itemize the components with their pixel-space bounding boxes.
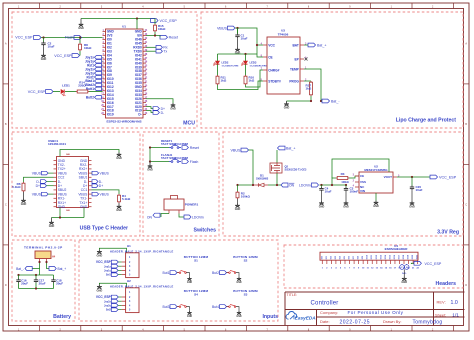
svg-text:2022-07-25: 2022-07-25 <box>340 319 371 325</box>
svg-text:S4: S4 <box>194 293 198 297</box>
svg-text:GND: GND <box>21 203 27 206</box>
svg-text:Bat_+: Bat_+ <box>317 43 327 47</box>
svg-text:STDBY#: STDBY# <box>268 79 281 83</box>
svg-text:Bat_-: Bat_- <box>331 99 340 103</box>
svg-text:LDOVin: LDOVin <box>299 183 311 187</box>
svg-text:MCU: MCU <box>183 121 195 127</box>
svg-text:10kΩ: 10kΩ <box>84 46 92 50</box>
svg-text:220Ω: 220Ω <box>78 84 86 88</box>
svg-text:But4: But4 <box>212 305 219 309</box>
svg-text:VBUS: VBUS <box>32 171 42 175</box>
svg-text:GND: GND <box>135 85 143 89</box>
svg-text:GND: GND <box>80 159 88 163</box>
svg-text:LED2: LED2 <box>222 61 229 65</box>
svg-text:IO37: IO37 <box>135 73 142 77</box>
svg-text:Controller: Controller <box>311 301 339 307</box>
svg-text:IO2: IO2 <box>330 256 332 259</box>
svg-text:VCC_ESP: VCC_ESP <box>96 260 112 264</box>
svg-text:Tx: Tx <box>163 50 167 54</box>
svg-text:GND: GND <box>58 159 66 163</box>
svg-text:GND: GND <box>187 282 192 284</box>
svg-text:IO8: IO8 <box>107 69 112 73</box>
svg-text:100kΩ: 100kΩ <box>241 194 251 198</box>
svg-text:Flash: Flash <box>65 36 74 40</box>
svg-text:IO40: IO40 <box>135 61 142 65</box>
svg-text:3V3: 3V3 <box>107 34 113 38</box>
svg-text:RX2+: RX2+ <box>79 167 87 171</box>
svg-text:Drawn By:: Drawn By: <box>383 319 401 324</box>
svg-text:IO4: IO4 <box>107 53 112 57</box>
svg-text:VOUT: VOUT <box>384 175 393 179</box>
svg-text:Bat_+: Bat_+ <box>286 146 296 150</box>
svg-text:Blad2: Blad2 <box>85 83 94 87</box>
svg-text:IO38: IO38 <box>135 69 142 73</box>
svg-text:1kΩ: 1kΩ <box>306 87 312 91</box>
svg-text:BAT: BAT <box>292 43 298 47</box>
svg-text:IO35: IO35 <box>135 81 142 85</box>
svg-text:Joy1y: Joy1y <box>85 59 94 63</box>
svg-text:GND: GND <box>401 280 407 284</box>
svg-text:IO6: IO6 <box>349 256 351 259</box>
svg-text:D-: D- <box>99 180 103 184</box>
svg-text:3.3V Reg: 3.3V Reg <box>437 230 459 236</box>
svg-text:1/1: 1/1 <box>452 312 459 318</box>
svg-text:GND: GND <box>78 27 84 30</box>
svg-text:D-: D- <box>84 180 87 184</box>
svg-text:IO11: IO11 <box>107 81 114 85</box>
svg-text:10uF: 10uF <box>416 188 423 192</box>
svg-text:CC1: CC1 <box>81 188 88 192</box>
svg-text:R3: R3 <box>341 172 345 176</box>
svg-text:TX1-: TX1- <box>80 197 87 201</box>
svg-text:TXD0: TXD0 <box>134 49 142 53</box>
svg-text:VBUS: VBUS <box>58 192 68 196</box>
svg-text:VBUS: VBUS <box>58 171 68 175</box>
svg-text:Lipo Charge and Protect: Lipo Charge and Protect <box>396 118 457 124</box>
svg-text:IO3: IO3 <box>107 49 112 53</box>
svg-text:IO8: IO8 <box>358 256 360 259</box>
svg-text:IO0: IO0 <box>107 38 112 42</box>
svg-text:IO17: IO17 <box>399 255 401 259</box>
svg-text:Joy2x: Joy2x <box>85 67 94 71</box>
svg-text:D1: D1 <box>260 173 264 177</box>
svg-text:IO7: IO7 <box>107 65 112 69</box>
svg-text:VBUS: VBUS <box>217 27 228 31</box>
svg-text:VBUS: VBUS <box>100 171 110 175</box>
svg-text:Rst1: Rst1 <box>87 63 94 67</box>
svg-text:VCC_ESP: VCC_ESP <box>96 295 112 299</box>
svg-text:REV:: REV: <box>437 299 446 304</box>
svg-text:IO41: IO41 <box>135 57 142 61</box>
svg-text:TERMINAL PH2.0-2P: TERMINAL PH2.0-2P <box>24 246 63 250</box>
svg-text:GND: GND <box>135 30 143 34</box>
svg-text:GND: GND <box>373 205 379 208</box>
svg-text:VSS: VSS <box>360 180 366 184</box>
svg-text:GND: GND <box>319 205 325 208</box>
svg-text:IO46: IO46 <box>135 38 142 42</box>
svg-text:IO16: IO16 <box>107 101 114 105</box>
svg-text:CC2: CC2 <box>58 176 65 180</box>
svg-text:VCC_ESP: VCC_ESP <box>439 175 457 179</box>
svg-text:GND: GND <box>96 253 102 257</box>
svg-text:Joy2x: Joy2x <box>104 300 111 303</box>
svg-text:IO7: IO7 <box>353 256 355 259</box>
svg-text:Sel2: Sel2 <box>106 309 112 312</box>
svg-text:IO2: IO2 <box>107 46 112 50</box>
svg-text:10uF: 10uF <box>241 36 248 40</box>
svg-text:20uF: 20uF <box>56 281 63 285</box>
svg-text:IO10: IO10 <box>107 77 114 81</box>
svg-text:RX1-: RX1- <box>58 197 66 201</box>
svg-text:IO21: IO21 <box>135 101 142 105</box>
svg-text:Joy2y: Joy2y <box>85 71 94 75</box>
svg-text:Bat_-: Bat_- <box>16 267 24 271</box>
svg-text:GND: GND <box>284 106 290 109</box>
svg-text:EasyEDA: EasyEDA <box>295 316 316 321</box>
svg-text:GND: GND <box>409 205 415 208</box>
svg-text:IO19: IO19 <box>408 255 410 259</box>
svg-text:1kΩ: 1kΩ <box>249 79 255 83</box>
svg-text:RX2-: RX2- <box>80 163 88 167</box>
svg-text:IO1: IO1 <box>107 42 112 46</box>
svg-text:U1: U1 <box>122 25 126 29</box>
svg-text:USB Type C Header: USB Type C Header <box>80 226 128 232</box>
svg-text:100nF: 100nF <box>350 190 359 194</box>
svg-text:D-: D- <box>138 113 141 117</box>
svg-text:IO15: IO15 <box>389 255 391 259</box>
svg-text:IO21: IO21 <box>417 255 419 259</box>
svg-text:But2: But2 <box>212 271 219 275</box>
svg-text:VCC: VCC <box>268 43 275 47</box>
svg-text:LDOVin: LDOVin <box>192 215 204 219</box>
svg-text:IO12: IO12 <box>107 85 114 89</box>
svg-text:10uF: 10uF <box>48 44 55 48</box>
svg-text:GND: GND <box>343 205 349 208</box>
svg-text:D-: D- <box>58 180 61 184</box>
svg-text:IO0: IO0 <box>321 256 323 259</box>
svg-text:H1: H1 <box>127 244 131 248</box>
svg-text:Butt2: Butt2 <box>86 96 94 100</box>
svg-text:Tommybdog: Tommybdog <box>413 319 443 325</box>
svg-text:IO9: IO9 <box>362 256 364 259</box>
svg-text:IO14: IO14 <box>107 93 114 97</box>
svg-text:12S460-0101: 12S460-0101 <box>48 142 66 146</box>
svg-text:IO26: IO26 <box>135 97 142 101</box>
svg-text:Blad1: Blad1 <box>85 79 94 83</box>
svg-text:H2: H2 <box>127 279 131 283</box>
svg-text:D+: D+ <box>99 184 103 188</box>
svg-text:IO39: IO39 <box>135 65 142 69</box>
svg-text:IO13: IO13 <box>380 255 382 259</box>
svg-text:GND: GND <box>58 205 66 209</box>
svg-text:Rx: Rx <box>163 46 167 50</box>
svg-text:IO36: IO36 <box>135 77 142 81</box>
svg-text:IO18: IO18 <box>107 109 114 113</box>
svg-text:VCC_ESP: VCC_ESP <box>28 90 46 94</box>
svg-text:IO9: IO9 <box>107 73 112 77</box>
svg-text:D+: D+ <box>58 184 62 188</box>
svg-text:ESP32-S2-WROOM/-INS: ESP32-S2-WROOM/-INS <box>106 120 141 124</box>
svg-text:VBUS: VBUS <box>100 192 110 196</box>
svg-text:Date:: Date: <box>320 319 330 324</box>
svg-text:HEADER_MALE_2.54_1X5P_RIGHTANG: HEADER_MALE_2.54_1X5P_RIGHTANGLE <box>110 249 174 253</box>
svg-text:VCC_ESP: VCC_ESP <box>160 19 178 23</box>
svg-text:IO20: IO20 <box>412 255 414 259</box>
svg-text:U3: U3 <box>281 29 285 33</box>
svg-text:EN: EN <box>137 34 142 38</box>
svg-text:VBUS: VBUS <box>78 171 88 175</box>
svg-text:GND: GND <box>107 30 115 34</box>
svg-text:SBU1: SBU1 <box>79 176 88 180</box>
svg-text:IO10: IO10 <box>367 255 369 259</box>
svg-text:TP4056: TP4056 <box>278 33 289 37</box>
svg-text:5.1kΩ: 5.1kΩ <box>122 197 131 201</box>
svg-text:VBUS: VBUS <box>78 192 88 196</box>
svg-text:Bat_+: Bat_+ <box>58 267 67 271</box>
svg-text:GND: GND <box>187 316 192 318</box>
svg-text:IO42: IO42 <box>135 53 142 57</box>
svg-text:S3: S3 <box>244 293 248 297</box>
svg-text:But1: But1 <box>163 271 170 275</box>
svg-text:Flash: Flash <box>190 160 199 164</box>
svg-text:RstC: RstC <box>87 75 95 79</box>
svg-text:Sheet:: Sheet: <box>435 312 446 317</box>
svg-text:10uF: 10uF <box>325 190 332 194</box>
svg-text:Joy1x: Joy1x <box>85 56 94 60</box>
svg-text:For Personal Use Only: For Personal Use Only <box>348 310 404 315</box>
svg-text:Q2: Q2 <box>285 164 289 168</box>
svg-text:VCC_ESP: VCC_ESP <box>425 262 442 266</box>
svg-text:IO12: IO12 <box>376 255 378 259</box>
svg-text:D+: D+ <box>161 107 165 111</box>
svg-text:IO11: IO11 <box>371 255 373 259</box>
svg-text:IO16: IO16 <box>394 255 396 259</box>
svg-text:IO6: IO6 <box>107 61 112 65</box>
svg-text:RXD0: RXD0 <box>133 46 142 50</box>
svg-text:ESPANHEADER: ESPANHEADER <box>385 247 409 251</box>
svg-text:LED3: LED3 <box>250 61 257 65</box>
svg-text:IO20: IO20 <box>135 105 142 109</box>
svg-text:LED1: LED1 <box>62 83 70 87</box>
svg-text:TEMP: TEMP <box>290 67 300 71</box>
svg-text:CE: CE <box>268 55 272 59</box>
svg-text:10kΩ: 10kΩ <box>158 27 166 31</box>
svg-text:SBU2: SBU2 <box>58 188 67 192</box>
svg-text:IO19: IO19 <box>135 109 142 113</box>
svg-text:HEADER_MALE_2.54_1X5P_RIGHTANG: HEADER_MALE_2.54_1X5P_RIGHTANGLE <box>110 284 174 288</box>
svg-text:D-: D- <box>36 180 40 184</box>
svg-text:IO5: IO5 <box>107 57 112 61</box>
svg-text:VBUS: VBUS <box>32 192 42 196</box>
svg-text:S1: S1 <box>194 259 198 263</box>
svg-text:1kΩ: 1kΩ <box>221 79 227 83</box>
svg-text:1N5819WS: 1N5819WS <box>256 178 269 181</box>
svg-text:Joy2y: Joy2y <box>104 305 111 308</box>
svg-text:TX1+: TX1+ <box>79 201 87 205</box>
svg-text:IO33: IO33 <box>135 93 142 97</box>
svg-text:1.0: 1.0 <box>451 300 458 306</box>
svg-text:Battery: Battery <box>53 314 71 320</box>
svg-text:Reset: Reset <box>169 36 178 40</box>
svg-text:ON: ON <box>289 183 295 187</box>
svg-text:TITLE:: TITLE: <box>287 293 298 297</box>
svg-text:VIN: VIN <box>360 189 365 193</box>
svg-text:PROG: PROG <box>289 79 299 83</box>
svg-text:GND: GND <box>236 282 241 284</box>
svg-text:RX1+: RX1+ <box>58 201 66 205</box>
svg-text:CHRG#: CHRG# <box>268 68 279 72</box>
svg-text:IO17: IO17 <box>107 105 114 109</box>
svg-text:POWER1: POWER1 <box>185 203 199 207</box>
svg-text:GND: GND <box>170 107 176 110</box>
svg-text:GND: GND <box>116 209 122 212</box>
svg-text:20uF: 20uF <box>39 281 46 285</box>
svg-text:SI2301CDS-T1-GE3: SI2301CDS-T1-GE3 <box>285 168 307 171</box>
svg-text:GND: GND <box>147 168 153 171</box>
svg-text:ME6217C33M5G: ME6217C33M5G <box>364 168 388 172</box>
svg-text:D+: D+ <box>36 184 40 188</box>
svg-text:TX2+: TX2+ <box>58 167 66 171</box>
svg-text:Headers: Headers <box>436 281 457 287</box>
svg-text:IO5: IO5 <box>344 256 346 259</box>
svg-text:IO34: IO34 <box>135 89 142 93</box>
svg-text:GND: GND <box>41 58 47 61</box>
svg-text:ON: ON <box>147 216 153 220</box>
svg-text:IO19: IO19 <box>107 113 114 117</box>
svg-text:20uF: 20uF <box>21 281 28 285</box>
svg-text:IO15: IO15 <box>107 97 114 101</box>
svg-text:IO3: IO3 <box>335 256 337 259</box>
svg-text:Company:: Company: <box>320 310 338 315</box>
svg-text:Joy1x: Joy1x <box>104 265 111 268</box>
svg-text:IO18: IO18 <box>403 255 405 259</box>
svg-text:Reset: Reset <box>190 146 199 150</box>
svg-text:Inputs: Inputs <box>262 314 278 320</box>
svg-text:D+: D+ <box>83 184 87 188</box>
svg-text:IO13: IO13 <box>107 89 114 93</box>
svg-text:CE: CE <box>360 174 364 178</box>
svg-text:GND: GND <box>236 316 241 318</box>
svg-text:IO1: IO1 <box>326 256 328 259</box>
svg-text:Joy1y: Joy1y <box>104 270 111 273</box>
svg-text:VCC_ESP: VCC_ESP <box>15 36 33 40</box>
svg-text:GND: GND <box>96 288 102 292</box>
svg-text:Sel1: Sel1 <box>106 274 112 277</box>
svg-text:S2: S2 <box>244 259 248 263</box>
svg-text:VCC_ESP: VCC_ESP <box>54 54 72 58</box>
svg-text:100kΩ: 100kΩ <box>341 181 348 184</box>
svg-text:Switches: Switches <box>194 228 217 234</box>
svg-text:TX2-: TX2- <box>58 163 65 167</box>
svg-text:D-: D- <box>161 111 165 115</box>
svg-text:GND: GND <box>116 157 122 160</box>
svg-text:But3: But3 <box>163 305 170 309</box>
svg-text:VBUS: VBUS <box>230 148 241 152</box>
svg-text:GND: GND <box>49 225 55 228</box>
svg-text:17-215SUYC/TR8: 17-215SUYC/TR8 <box>222 65 240 67</box>
svg-text:5.1kΩ: 5.1kΩ <box>12 185 21 189</box>
svg-text:IO45: IO45 <box>135 42 142 46</box>
svg-text:17-215SURC/TR8: 17-215SURC/TR8 <box>250 65 268 67</box>
svg-text:GND: GND <box>235 208 241 211</box>
